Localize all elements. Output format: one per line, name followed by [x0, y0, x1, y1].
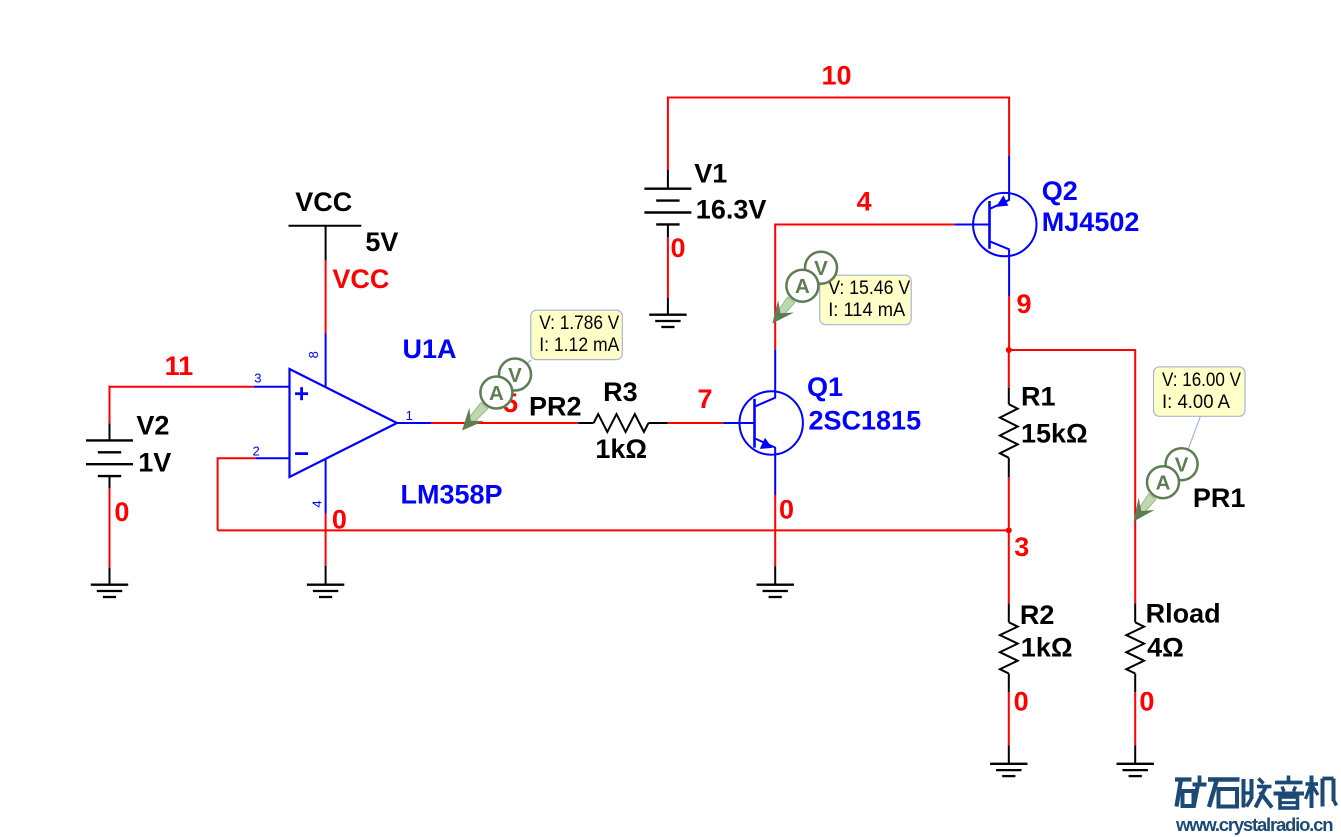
- battery V1: [644, 189, 691, 225]
- svg-text:MJ4502: MJ4502: [1042, 207, 1140, 237]
- svg-text:3: 3: [1014, 532, 1029, 562]
- svg-text:A: A: [795, 275, 810, 298]
- svg-text:5V: 5V: [365, 227, 398, 257]
- junction at R1 top: [1006, 347, 1012, 353]
- svg-text:V1: V1: [694, 159, 727, 189]
- wire net 0 below V1: [667, 237, 669, 298]
- svg-text:0: 0: [332, 505, 347, 535]
- wire net 7: [668, 422, 723, 424]
- wire pin2 red segment: [218, 457, 256, 459]
- svg-text:1kΩ: 1kΩ: [1021, 632, 1073, 662]
- svg-text:A: A: [1156, 472, 1171, 495]
- svg-text:15kΩ: 15kΩ: [1021, 419, 1088, 449]
- wire pin2 drop to bus: [217, 457, 219, 530]
- svg-text:10: 10: [822, 61, 852, 91]
- svg-text:VCC: VCC: [295, 187, 352, 217]
- wire Q1 collector blue: [774, 349, 776, 397]
- battery V2: [86, 440, 133, 476]
- svg-text:1: 1: [406, 408, 413, 423]
- wire net 3 bus: [218, 529, 1009, 531]
- R2 top lead: [1008, 604, 1010, 623]
- svg-text:1V: 1V: [138, 447, 171, 477]
- svg-text:I: 1.12 mA: I: 1.12 mA: [539, 335, 619, 356]
- transistor Q1 symbol: [723, 391, 803, 454]
- wire R2 top: [1008, 530, 1010, 603]
- svg-text:V: 15.46 V: V: 15.46 V: [828, 278, 910, 299]
- wire net 0 below Rload: [1134, 692, 1136, 745]
- tooltip V: 16.00 V: [1154, 367, 1246, 417]
- svg-text:0: 0: [114, 497, 129, 527]
- op-amp ground stem: [325, 566, 327, 585]
- svg-text:R3: R3: [603, 377, 638, 407]
- wire net 0 below pin4: [325, 514, 327, 566]
- svg-text:VCC: VCC: [332, 264, 389, 294]
- V1 top lead: [667, 170, 669, 190]
- probe PR2: [468, 403, 488, 424]
- op-amp plus input mark: [295, 387, 308, 400]
- resistor R2: [1000, 622, 1018, 673]
- VCC rail bar: [289, 225, 362, 227]
- svg-text:1kΩ: 1kΩ: [595, 434, 647, 464]
- V1 ground stem: [667, 298, 669, 315]
- svg-text:8: 8: [306, 351, 321, 358]
- ground Rload: [1117, 764, 1154, 776]
- Q1 ground stem: [774, 567, 776, 585]
- svg-text:16.3V: 16.3V: [696, 194, 767, 224]
- wire net VCC red: [325, 261, 327, 334]
- resistor R3: [594, 414, 649, 432]
- svg-text:2: 2: [253, 444, 260, 459]
- svg-text:I: 114 mA: I: 114 mA: [828, 300, 905, 321]
- svg-text:PR1: PR1: [1193, 483, 1246, 513]
- svg-text:A: A: [489, 382, 504, 405]
- svg-text:I: 4.00 A: I: 4.00 A: [1162, 392, 1230, 413]
- svg-text:Rload: Rload: [1146, 598, 1221, 628]
- measurement probe on net 4: [778, 297, 795, 316]
- wire net 10 right drop to Q2 emitter: [1008, 97, 1010, 157]
- wire to Rload branch horizontal: [1009, 349, 1135, 351]
- svg-text:R2: R2: [1020, 600, 1055, 630]
- svg-text:LM358P: LM358P: [401, 480, 503, 510]
- resistor R1: [1000, 404, 1018, 458]
- tooltip V: 15.46 V: [820, 275, 912, 325]
- Rload ground stem: [1134, 746, 1136, 764]
- wire Q1 emitter blue: [774, 448, 776, 495]
- svg-text:U1A: U1A: [403, 334, 457, 364]
- ground Q1: [757, 585, 794, 597]
- svg-text:9: 9: [1017, 289, 1032, 319]
- wire net 4 horizontal: [774, 224, 955, 226]
- R3 right lead: [649, 422, 668, 424]
- ground R2: [990, 764, 1027, 776]
- wire op-amp pin2 blue: [256, 457, 290, 459]
- transistor Q2 symbol: [955, 193, 1037, 256]
- wire R1 top: [1008, 350, 1010, 388]
- svg-text:Q1: Q1: [807, 372, 843, 402]
- wire Q2 collector blue: [1008, 250, 1010, 296]
- PR2 leader line: [524, 360, 532, 367]
- svg-text:2SC1815: 2SC1815: [809, 406, 922, 436]
- svg-text:4: 4: [857, 187, 872, 217]
- wire net 11 vertical: [109, 386, 111, 424]
- svg-text:V: 1.786 V: V: 1.786 V: [539, 313, 619, 334]
- op-amp U1A triangle: [290, 369, 398, 477]
- R1 bottom lead: [1008, 458, 1010, 477]
- wire net 0 below V2: [109, 488, 111, 568]
- svg-text:R1: R1: [1021, 382, 1056, 412]
- svg-text:www.crystalradio.cn: www.crystalradio.cn: [1175, 814, 1334, 835]
- VCC stem black: [325, 226, 327, 261]
- svg-text:4Ω: 4Ω: [1147, 632, 1184, 662]
- wire net 11 horizontal: [109, 386, 254, 388]
- svg-text:V2: V2: [136, 411, 169, 441]
- svg-text:PR2: PR2: [529, 391, 582, 421]
- svg-text:0: 0: [1139, 687, 1154, 717]
- wire net 4 vertical to Q1 collector: [774, 224, 776, 350]
- svg-text:4: 4: [310, 500, 325, 507]
- junction at node 3: [1006, 527, 1012, 533]
- ground V2: [91, 585, 128, 597]
- svg-text:Q2: Q2: [1042, 176, 1078, 206]
- ground V1: [649, 315, 686, 327]
- tooltip V: 1.786 V: [531, 310, 623, 360]
- wire op-amp pin4 blue: [325, 459, 327, 514]
- wire net 0 below Q1: [774, 495, 776, 567]
- wire Q2 emitter blue: [1008, 156, 1010, 200]
- wire op-amp pin1 blue: [397, 422, 431, 424]
- svg-text:11: 11: [165, 351, 194, 381]
- V1 bottom lead: [667, 225, 669, 238]
- svg-text:V: 16.00 V: V: 16.00 V: [1162, 370, 1241, 391]
- R1 top lead: [1008, 388, 1010, 405]
- wire Rload branch vertical: [1134, 349, 1136, 604]
- Rload top lead: [1134, 604, 1136, 623]
- wire net 10 top rail: [668, 97, 1010, 99]
- op-amp minus input mark: [295, 452, 308, 455]
- wire op-amp pin8 blue: [325, 334, 327, 387]
- wire net 9: [1008, 296, 1010, 350]
- V2 bottom lead: [109, 476, 111, 488]
- svg-text:0: 0: [1014, 687, 1029, 717]
- wire net 0 below R2: [1008, 692, 1010, 745]
- wire R1 bottom: [1008, 477, 1010, 530]
- V2 top lead: [109, 423, 111, 441]
- R2 bottom lead: [1008, 674, 1010, 693]
- wire net 5 red: [431, 422, 578, 424]
- probe PR1: [1139, 494, 1156, 513]
- resistor Rload: [1126, 622, 1144, 673]
- ground op-amp: [307, 585, 344, 597]
- svg-text:3: 3: [254, 370, 261, 385]
- V2 ground stem: [109, 568, 111, 585]
- PR1 leader line: [1189, 416, 1201, 448]
- svg-text:7: 7: [698, 384, 713, 414]
- svg-text:0: 0: [779, 495, 794, 525]
- wire op-amp pin3 blue: [254, 386, 290, 388]
- R2 ground stem: [1008, 746, 1010, 764]
- wire net 10 left drop to V1: [667, 97, 669, 171]
- Rload bottom lead: [1134, 674, 1136, 693]
- svg-text:0: 0: [671, 233, 686, 263]
- watermark logo crystalradio: [1175, 776, 1337, 809]
- R3 left lead: [579, 422, 594, 424]
